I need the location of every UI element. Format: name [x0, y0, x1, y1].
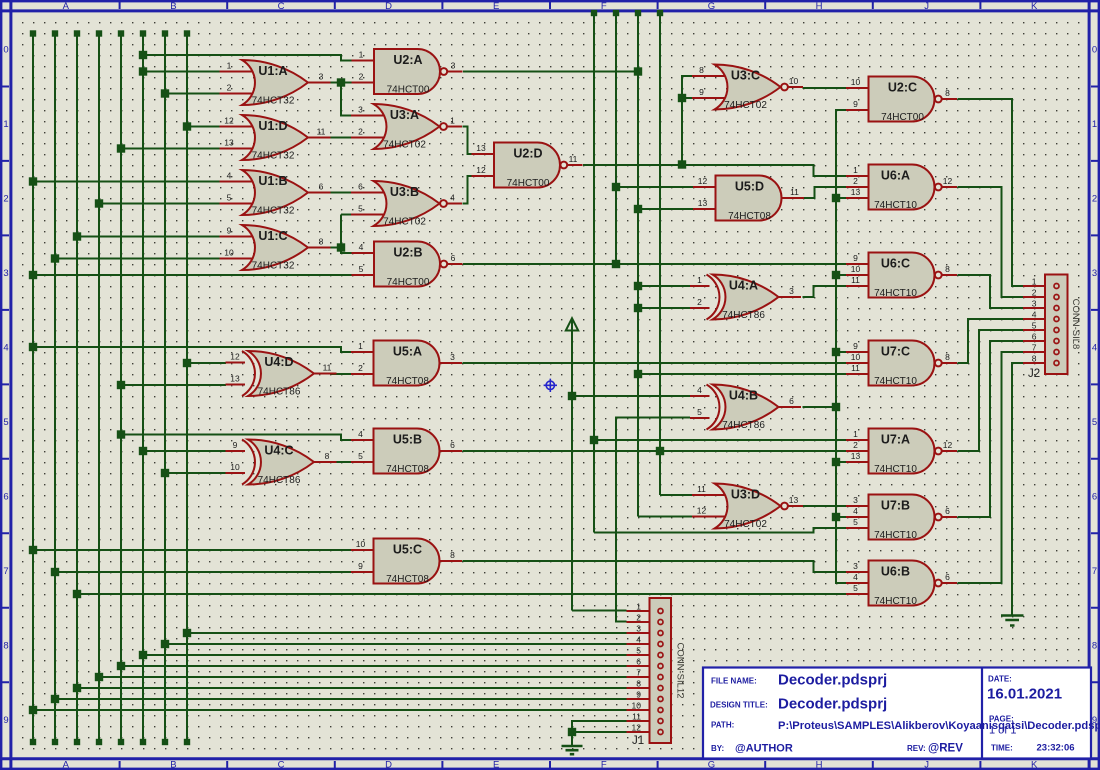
wire U6:B.6 to J2 pin7	[958, 352, 1024, 583]
svg-text:U7:C: U7:C	[881, 345, 910, 359]
pin 8 circle	[1054, 361, 1059, 366]
svg-text:F: F	[601, 1, 607, 12]
svg-text:B: B	[170, 760, 176, 770]
svg-text:U3:D: U3:D	[731, 488, 760, 502]
svg-text:7: 7	[3, 566, 8, 577]
svg-text:5: 5	[359, 264, 364, 274]
svg-text:@AUTHOR: @AUTHOR	[735, 743, 793, 755]
pin 9 circle	[658, 697, 663, 702]
pin 10 stub	[627, 709, 661, 711]
junction at (99,203.5)	[95, 199, 103, 207]
terminal bus line 3 bottom	[74, 739, 80, 745]
wire U1:C pin10 feed	[55, 258, 220, 260]
svg-text:8: 8	[699, 65, 704, 75]
wire U2:A.3 out wire	[463, 71, 638, 73]
junction at (187,363)	[183, 359, 191, 367]
junction at (572,396)	[568, 392, 576, 400]
terminal x594 top	[591, 10, 597, 16]
pin 2 stub	[351, 373, 375, 375]
svg-text:4: 4	[1032, 310, 1037, 320]
junction at (638,374)	[634, 370, 642, 378]
svg-text:G: G	[708, 1, 715, 12]
NAND gate U2:B (74HCT00)	[352, 242, 463, 289]
svg-text:H: H	[816, 760, 823, 770]
svg-text:3: 3	[451, 61, 456, 71]
svg-text:9: 9	[699, 87, 704, 97]
wire x836 tap to pin at y462	[836, 461, 847, 463]
wire net U2:C.9 vertical x836	[836, 110, 847, 583]
NOR gate U3:A (74HCT02)	[351, 104, 462, 151]
pin 12 stub	[472, 175, 496, 177]
svg-text:1 of 1: 1 of 1	[989, 725, 1017, 737]
svg-text:10: 10	[851, 77, 861, 87]
NAND3 gate U6:A (74HCT10)	[846, 165, 957, 212]
AND gate U5:A (74HCT08)	[351, 341, 462, 388]
svg-text:12: 12	[230, 352, 240, 362]
pin 4 stub	[351, 439, 375, 441]
svg-text:12: 12	[943, 176, 953, 186]
pin 8 stub	[692, 75, 726, 77]
svg-text:11: 11	[323, 363, 332, 373]
svg-text:U2:B: U2:B	[393, 246, 422, 260]
pin 4 stub	[220, 181, 254, 183]
junction at (33,275)	[29, 271, 37, 279]
svg-text:4: 4	[636, 635, 641, 645]
pin 3 stub	[1023, 307, 1057, 309]
junction at (616,264)	[612, 260, 620, 268]
svg-text:2: 2	[1032, 288, 1037, 298]
svg-text:8: 8	[450, 550, 455, 560]
pin 6 circle	[658, 664, 663, 669]
wire bus line 5	[120, 33, 122, 743]
svg-text:12: 12	[943, 440, 953, 450]
wire U2:D.11 to U6:A.1	[583, 165, 847, 176]
svg-text:4: 4	[853, 506, 858, 516]
junction at (836,275)	[832, 271, 840, 279]
svg-text:7: 7	[1032, 343, 1037, 353]
AND gate U5:C (74HCT08)	[351, 539, 462, 586]
wire bus line 6	[142, 33, 144, 743]
svg-text:U7:B: U7:B	[881, 499, 910, 513]
svg-text:PATH:: PATH:	[711, 721, 734, 730]
pin 3 output stub	[307, 82, 331, 84]
svg-text:3: 3	[450, 352, 455, 362]
NAND gate U2:D (74HCT00)	[472, 143, 583, 190]
svg-text:U3:A: U3:A	[390, 108, 419, 122]
pin 9 stub	[846, 109, 870, 111]
gate body	[869, 429, 935, 474]
svg-text:74HCT32: 74HCT32	[252, 206, 295, 217]
wire U2:A pin1 feed	[143, 55, 352, 61]
svg-text:3: 3	[853, 561, 858, 571]
junction at (836,352)	[832, 348, 840, 356]
svg-text:2: 2	[853, 176, 858, 186]
svg-text:2: 2	[358, 127, 363, 137]
terminal bus line 8 top	[184, 30, 190, 36]
wire U5:D pin12 feed	[616, 186, 694, 188]
svg-text:1: 1	[853, 165, 858, 175]
pin 6 stub	[1023, 340, 1057, 342]
pin 4 stub	[627, 643, 661, 645]
svg-text:4: 4	[697, 385, 702, 395]
svg-text:74HCT00: 74HCT00	[387, 277, 430, 288]
pin 11 stub	[627, 720, 661, 722]
terminal bus line 4 top	[96, 30, 102, 36]
gate body	[869, 495, 935, 540]
pin 4 circle	[1054, 317, 1059, 322]
svg-text:10: 10	[851, 352, 861, 362]
pin 12 stub	[220, 126, 254, 128]
pin 9 stub	[226, 450, 246, 452]
terminal bus line 3 top	[74, 30, 80, 36]
svg-text:9: 9	[853, 341, 858, 351]
pin 1 stub	[690, 285, 710, 287]
wire bus line 8	[186, 33, 188, 743]
svg-text:1: 1	[450, 116, 455, 126]
svg-text:U2:A: U2:A	[393, 53, 422, 67]
gate body	[869, 561, 935, 606]
wire bus line 2	[54, 33, 56, 743]
junction at (33,550)	[29, 546, 37, 554]
pin 12 stub	[226, 362, 246, 364]
pin 9 stub	[351, 571, 375, 573]
gate body	[374, 242, 440, 287]
pin 12 circle	[658, 730, 663, 735]
pin 1 circle	[1054, 284, 1059, 289]
NOR gate U3:D (74HCT02)	[692, 484, 803, 531]
svg-text:13: 13	[789, 495, 799, 505]
svg-text:A: A	[63, 760, 70, 770]
svg-text:74HCT02: 74HCT02	[724, 519, 767, 530]
NAND gate U2:A (74HCT00)	[352, 49, 463, 96]
wire U7:A.12 to J2 pin5	[958, 330, 1024, 451]
terminal bus line 2 bottom	[52, 739, 58, 745]
svg-text:2: 2	[697, 297, 702, 307]
wire U6:A.12 to J2 pin2	[958, 187, 1024, 297]
OR gate U1:B (74HCT32)	[220, 170, 331, 217]
junction at (33,710)	[29, 706, 37, 714]
svg-text:C: C	[278, 1, 285, 12]
svg-text:10: 10	[224, 248, 234, 258]
svg-text:U6:B: U6:B	[881, 565, 910, 579]
wire U7:C pin11 feed	[638, 373, 847, 375]
svg-text:DESIGN TITLE:: DESIGN TITLE:	[710, 701, 768, 710]
svg-text:11: 11	[790, 187, 799, 197]
svg-text:74HCT02: 74HCT02	[724, 100, 767, 111]
svg-text:4: 4	[227, 171, 232, 181]
pin 10 stub	[351, 549, 375, 551]
svg-text:U5:A: U5:A	[393, 345, 422, 359]
pin 5 stub	[352, 274, 376, 276]
pin 12 output stub	[942, 186, 957, 188]
wire J1 pin7 feed	[99, 676, 627, 678]
pin 4 stub	[846, 516, 870, 518]
terminal bus line 1 top	[30, 30, 36, 36]
svg-text:3: 3	[358, 105, 363, 115]
wire J1 pin10 feed	[33, 709, 627, 711]
ground symbol near J1	[562, 746, 583, 754]
pin 12 stub	[627, 731, 661, 733]
pin 2 stub	[846, 450, 870, 452]
wire J1 pin4 feed	[165, 643, 627, 645]
wire branch to U2:B.4	[341, 248, 352, 254]
svg-text:16.01.2021: 16.01.2021	[987, 686, 1062, 703]
wire U1:D pin13 feed	[121, 148, 220, 150]
pin 9 stub	[692, 97, 726, 99]
svg-text:9: 9	[233, 440, 238, 450]
wire U1:C pin9 feed	[77, 236, 220, 238]
pin 1 stub	[220, 71, 254, 73]
pin 13 stub	[846, 197, 870, 199]
svg-text:4: 4	[853, 572, 858, 582]
title block	[703, 668, 1100, 759]
svg-text:8: 8	[945, 352, 950, 362]
wire J1 pin11 to ground	[572, 721, 627, 746]
pin 11 output stub	[568, 164, 583, 166]
wire J1 pin12 feed	[572, 731, 627, 733]
pin 5 stub	[351, 214, 385, 216]
pin 6 stub	[351, 192, 385, 194]
svg-text:@REV: @REV	[928, 743, 963, 755]
svg-text:2: 2	[1092, 194, 1097, 205]
svg-text:J2: J2	[1028, 368, 1040, 380]
svg-text:13: 13	[224, 138, 234, 148]
svg-text:1: 1	[1032, 277, 1037, 287]
svg-text:Decoder.pdsprj: Decoder.pdsprj	[778, 672, 887, 689]
svg-text:U6:A: U6:A	[881, 169, 910, 183]
svg-text:1: 1	[697, 275, 702, 285]
svg-text:12: 12	[224, 116, 234, 126]
svg-text:9: 9	[227, 226, 232, 236]
pin 13 stub	[220, 148, 254, 150]
pin 3 stub	[351, 115, 385, 117]
svg-text:J: J	[924, 760, 929, 770]
svg-text:BY:: BY:	[711, 744, 724, 753]
junction at (121,666)	[117, 662, 125, 670]
wire U4:A pin1 feed	[638, 285, 690, 287]
svg-text:74HCT32: 74HCT32	[252, 261, 295, 272]
gate body	[713, 385, 779, 430]
pin 6 output stub	[942, 516, 957, 518]
svg-text:7: 7	[1092, 566, 1097, 577]
wire x836 tap to pin at y198	[836, 197, 847, 199]
svg-text:6: 6	[451, 253, 456, 263]
wire U4:C.8 to U5:B.5	[331, 461, 352, 463]
pin 2 stub	[1023, 296, 1057, 298]
wire U4:B pin4 feed	[572, 395, 690, 397]
wire U1:A.3 to U2:A.2	[331, 82, 353, 84]
pin 10 stub	[846, 362, 870, 364]
pin 5 circle	[658, 653, 663, 658]
NAND3 gate U6:B (74HCT10)	[846, 561, 957, 608]
gate body	[869, 341, 935, 386]
wire U3:C pin9 feed	[682, 97, 693, 99]
wire net U4:B.5 to J1 pin2	[616, 418, 690, 622]
wire J1 pin5 feed	[143, 654, 627, 656]
svg-text:TIME:: TIME:	[991, 744, 1013, 753]
wire U5:B.6 to U7:A.2	[463, 450, 847, 452]
power terminal arrow	[566, 318, 578, 330]
pin 3 stub	[846, 505, 870, 507]
pin 1 stub	[351, 351, 375, 353]
junction at (33,181.5)	[29, 177, 37, 185]
svg-text:C: C	[278, 760, 285, 770]
terminal bus line 2 top	[52, 30, 58, 36]
svg-text:74HCT08: 74HCT08	[386, 464, 429, 475]
pin 1 stub	[846, 175, 870, 177]
pin 2 circle	[658, 620, 663, 625]
pin 4 output stub	[448, 203, 463, 205]
gate body	[374, 104, 440, 149]
svg-text:74HCT00: 74HCT00	[387, 85, 430, 96]
svg-text:U6:C: U6:C	[881, 257, 910, 271]
XOR gate U4:A (74HCT86)	[690, 275, 801, 322]
svg-text:11: 11	[569, 154, 578, 164]
wire U4:A.3 to U6:C.11	[803, 286, 847, 297]
svg-text:4: 4	[1092, 343, 1097, 354]
svg-text:P:\Proteus\SAMPLES\Alikberov\K: P:\Proteus\SAMPLES\Alikberov\Koyaanisqat…	[778, 720, 1100, 732]
wire U4:C pin9 feed	[143, 450, 226, 452]
pin 8 stub	[627, 687, 661, 689]
ground symbol near J2	[1001, 616, 1024, 626]
pin 11 stub	[692, 494, 726, 496]
pin 6 output stub	[778, 406, 802, 408]
svg-text:5: 5	[697, 407, 702, 417]
svg-text:6: 6	[450, 440, 455, 450]
svg-text:5: 5	[227, 193, 232, 203]
wire U5:A.3 to U7:C.10	[463, 362, 847, 364]
svg-text:1: 1	[1092, 119, 1097, 130]
wire U5:D.11 to U6:A.2	[804, 187, 847, 198]
svg-text:74HCT10: 74HCT10	[874, 200, 917, 211]
svg-text:74HCT86: 74HCT86	[258, 387, 301, 398]
svg-text:6: 6	[3, 492, 8, 503]
svg-text:0: 0	[3, 45, 8, 56]
pin 8 output stub	[942, 274, 957, 276]
svg-text:1: 1	[3, 119, 8, 130]
AND gate U5:D (74HCT08)	[693, 176, 804, 223]
svg-text:6: 6	[636, 657, 641, 667]
wire J1 pin6 feed	[121, 665, 627, 667]
pin 8 output stub	[307, 247, 331, 249]
svg-text:REV:: REV:	[907, 744, 926, 753]
svg-text:74HCT86: 74HCT86	[722, 310, 765, 321]
svg-text:11: 11	[851, 275, 860, 285]
svg-text:1: 1	[636, 602, 641, 612]
svg-text:U4:D: U4:D	[264, 355, 293, 369]
pin 6 circle	[1054, 339, 1059, 344]
wire U1:A pin2 feed	[165, 93, 220, 95]
OR gate U1:D (74HCT32)	[220, 115, 331, 162]
svg-text:6: 6	[945, 506, 950, 516]
svg-text:3: 3	[636, 624, 641, 634]
wire U1:A pin1 feed	[143, 71, 220, 73]
wire net U2A3 vertical x638	[637, 12, 639, 517]
pin 10 stub	[846, 274, 870, 276]
svg-text:8: 8	[1032, 354, 1037, 364]
svg-text:U1:C: U1:C	[258, 229, 287, 243]
svg-text:5: 5	[358, 204, 363, 214]
terminal bus line 7 top	[162, 30, 168, 36]
junction at (836,407)	[832, 403, 840, 411]
sheet centre marker	[544, 379, 557, 392]
pin 2 stub	[690, 307, 710, 309]
junction at (187,126.5)	[183, 122, 191, 130]
connector body	[1045, 275, 1068, 375]
gate body	[374, 341, 440, 386]
terminal bus line 6 top	[140, 30, 146, 36]
svg-text:3: 3	[1092, 268, 1097, 279]
svg-text:0: 0	[1092, 45, 1097, 56]
svg-text:U1:B: U1:B	[258, 174, 287, 188]
junction at (682,98)	[678, 94, 686, 102]
wire U1:D pin12 feed	[187, 126, 220, 128]
svg-text:U5:C: U5:C	[393, 543, 422, 557]
pin 3 output stub	[439, 362, 463, 364]
svg-text:6: 6	[945, 572, 950, 582]
junction at (165,644)	[161, 640, 169, 648]
pin 10 stub	[226, 472, 246, 474]
svg-text:2: 2	[358, 363, 363, 373]
pin 4 circle	[658, 642, 663, 647]
gate body	[242, 225, 308, 270]
svg-text:E: E	[493, 760, 499, 770]
svg-text:3: 3	[1032, 299, 1037, 309]
pin 4 stub	[352, 252, 376, 254]
svg-text:10: 10	[789, 76, 799, 86]
wire U3:D.13 to U7:B.3	[803, 505, 847, 507]
svg-text:4: 4	[359, 242, 364, 252]
XOR gate U4:C (74HCT86)	[226, 440, 337, 487]
svg-text:J: J	[924, 1, 929, 12]
junction at (143,655)	[139, 651, 147, 659]
junction at (341,247.5)	[337, 243, 345, 251]
junction at (341,82.5)	[337, 78, 345, 86]
svg-text:23:32:06: 23:32:06	[1037, 743, 1075, 754]
svg-text:5: 5	[1032, 321, 1037, 331]
junction at (143,55)	[139, 51, 147, 59]
junction at (572,732)	[568, 728, 576, 736]
wire x836 tap to pin at y352	[836, 351, 847, 353]
pin 9 stub	[846, 263, 870, 265]
wire J2 pin8 to ground	[1012, 363, 1023, 615]
gate body	[248, 440, 314, 485]
pin 6 stub	[627, 665, 661, 667]
svg-text:74HCT02: 74HCT02	[383, 140, 426, 151]
pin 12 stub	[692, 516, 726, 518]
svg-text:CONN-SIL8: CONN-SIL8	[1070, 299, 1081, 350]
wire bus line 3	[76, 33, 78, 743]
svg-text:Decoder.pdsprj: Decoder.pdsprj	[778, 696, 887, 713]
wire U5:A pin1 feed	[33, 347, 352, 352]
wire U3:C.10 to U2:C.10	[803, 87, 847, 89]
junction at (638,209)	[634, 205, 642, 213]
wire J1 pin3 feed	[187, 632, 627, 634]
pin 1 stub	[352, 60, 376, 62]
svg-text:74HCT32: 74HCT32	[252, 151, 295, 162]
svg-text:2: 2	[3, 194, 8, 205]
gate body	[242, 170, 308, 215]
pin 1 stub	[1023, 285, 1057, 287]
svg-text:U5:B: U5:B	[393, 433, 422, 447]
pin 6 output stub	[307, 192, 331, 194]
junction at (638,308)	[634, 304, 642, 312]
junction at (77,594)	[73, 590, 81, 598]
svg-text:D: D	[385, 1, 392, 12]
junction at (121,434.5)	[117, 430, 125, 438]
junction at (682,164.5)	[678, 160, 686, 168]
wire net U3:C pins vertical x682	[682, 76, 693, 165]
